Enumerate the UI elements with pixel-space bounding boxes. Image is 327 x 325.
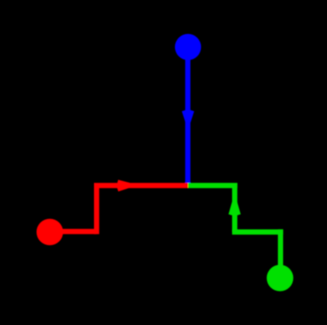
wire green second vertical (to node G) xyxy=(278,229,283,278)
wire green lower horizontal xyxy=(232,229,283,234)
arrowhead on blue wire (pointing down) xyxy=(184,110,191,121)
wire blue vertical (node B to junction) xyxy=(185,47,190,188)
node R red terminal dot xyxy=(37,219,64,246)
wire red upper horizontal (to junction) xyxy=(94,183,188,188)
arrowhead on red wire (pointing right) xyxy=(118,182,130,189)
wire red lower horizontal (from node R) xyxy=(50,229,97,234)
node G green terminal dot xyxy=(267,265,294,292)
arrowhead on green wire (pointing up) xyxy=(231,202,238,215)
wire green first vertical xyxy=(232,183,237,232)
wire green upper horizontal (junction to first bend) xyxy=(188,183,237,188)
wire red vertical xyxy=(94,186,99,235)
node B blue terminal dot xyxy=(175,34,201,60)
